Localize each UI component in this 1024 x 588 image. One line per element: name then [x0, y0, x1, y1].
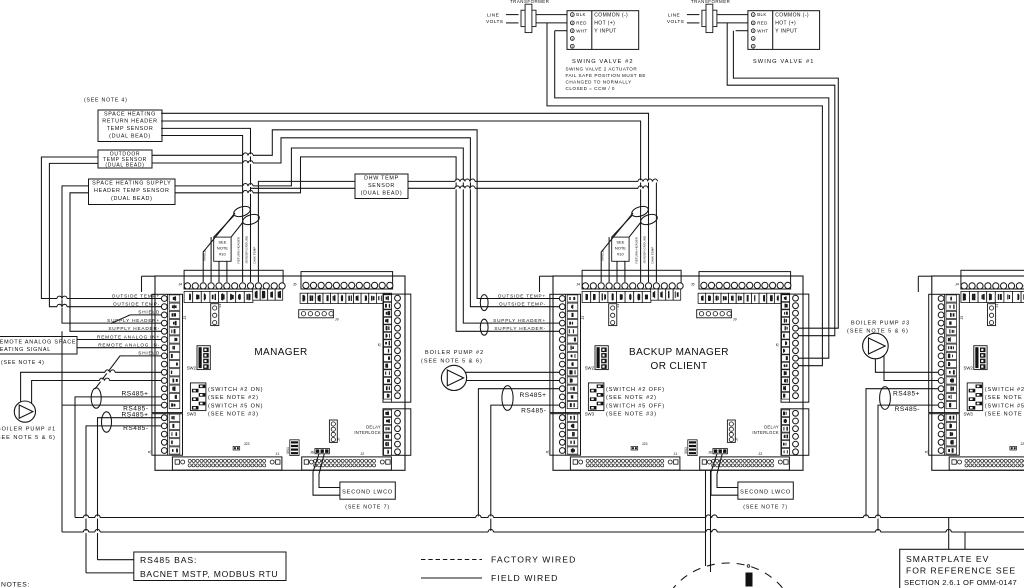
right terminal column (backup manager)	[776, 294, 809, 402]
svg-text:RS485+: RS485+	[121, 390, 148, 397]
connector Z1 (manager)	[211, 304, 222, 326]
bus1 hop at x=478.4	[476, 515, 481, 519]
cable ellipse backup supply pair	[480, 319, 488, 335]
svg-text:DELAY: DELAY	[366, 424, 381, 429]
DIP switch SW2 (manager)	[187, 346, 211, 371]
wire line volts to transformer (valve 2 circuit)	[506, 15, 519, 23]
label boiler pump #3	[847, 320, 910, 334]
svg-text:FAIL SAFE POSITION MUST BE: FAIL SAFE POSITION MUST BE	[566, 73, 646, 78]
connector J7 (backup manager)	[727, 420, 739, 442]
label J3 (third boiler board, clipped)	[960, 316, 964, 320]
connector J6 (backup manager)	[708, 449, 727, 455]
wire boiler pump #2 b	[466, 380, 560, 382]
cable ellipse markers at J4 (manager)	[232, 204, 260, 226]
label boiler pump #1	[0, 427, 56, 442]
see note #10 box (manager)	[214, 237, 231, 261]
label J3 (backup manager)	[581, 316, 585, 320]
wire remote analog in+	[77, 339, 162, 341]
wire board top-left stub (third boiler board, clipped)	[918, 276, 932, 292]
svg-text:(SEE NOTE #2): (SEE NOTE #2)	[606, 395, 657, 401]
remote analog signal box	[0, 337, 77, 355]
connector J6 (manager)	[310, 449, 329, 455]
svg-text:BACKUP MANAGER: BACKUP MANAGER	[629, 347, 729, 358]
board name (third boiler board, clipped)	[0, 0, 1, 1]
wires see-note box to J4 terminals (backup manager)	[609, 237, 625, 282]
left lower terminal group (third boiler board, clipped)	[924, 414, 959, 456]
wire supply header sensor to manager supply header+	[62, 186, 162, 323]
wire outdoor sensor to backup manager outside temp+	[152, 130, 560, 299]
svg-text:SENSOR GROUND: SENSOR GROUND	[642, 235, 646, 263]
svg-text:OUTSIDE TEMP+: OUTSIDE TEMP+	[112, 293, 160, 298]
svg-text:SHIELD: SHIELD	[601, 249, 605, 261]
terminal block SWING VALVE #1 (valve 1 circuit)	[748, 11, 820, 50]
wire boiler pump #2 a	[466, 371, 560, 373]
sensor box: space heating return header temp sensor	[98, 110, 162, 142]
svg-text:TRANSFORMER: TRANSFORMER	[691, 0, 730, 4]
svg-text:OUTSIDE TEMP+: OUTSIDE TEMP+	[498, 293, 546, 298]
notes heading	[1, 582, 30, 588]
svg-text:CHANGED TO NORMALLY: CHANGED TO NORMALLY	[566, 79, 632, 84]
svg-text:TEMP SENSOR: TEMP SENSOR	[107, 126, 154, 132]
connector J4 terminal strip (third boiler board, clipped)	[955, 270, 1024, 302]
transformer (valve 2 circuit)	[510, 0, 549, 33]
switch setting notes (third boiler board, clipped)	[985, 387, 1024, 418]
cable ellipse board3 RS485	[880, 387, 891, 410]
wire manager RS485+ upper	[75, 397, 162, 518]
wire supply header sensor to backup manager supply header-	[175, 157, 560, 331]
wire DHW sensor to manager J4 dhw temp	[258, 181, 355, 282]
svg-text:J5: J5	[378, 343, 382, 347]
svg-text:SMARTPLATE EV: SMARTPLATE EV	[906, 554, 989, 564]
svg-text:SW3: SW3	[585, 412, 595, 417]
boiler pump #3 symbol	[863, 333, 889, 359]
wire manager RS485- upper	[62, 404, 162, 406]
svg-text:OUTSIDE TEMP-: OUTSIDE TEMP-	[113, 302, 160, 307]
wire boiler pump #3 a	[875, 359, 938, 373]
svg-text:(DUAL BEAD): (DUAL BEAD)	[361, 191, 403, 197]
svg-text:J2: J2	[360, 452, 364, 456]
second LWCO box (manager)	[313, 454, 395, 511]
svg-text:(SEE NOTE #2): (SEE NOTE #2)	[985, 395, 1024, 401]
svg-text:SW3: SW3	[187, 412, 197, 417]
svg-text:NOTES:: NOTES:	[1, 582, 30, 588]
label manager RS485- lower	[123, 425, 148, 432]
label manager RS485- upper	[123, 406, 148, 413]
bus1 hop at x=714.5	[712, 515, 717, 519]
svg-text:LINE: LINE	[487, 12, 499, 18]
wire supply header sensor to backup manager supply header+	[175, 148, 560, 323]
svg-text:FIELD WIRED: FIELD WIRED	[491, 573, 559, 583]
wire shield stub row3 (manager)	[111, 315, 162, 324]
svg-text:FOR REFERENCE SEE: FOR REFERENCE SEE	[906, 566, 1016, 576]
label board3 RS485+	[893, 390, 920, 397]
wire RS485 trunk left vertical B	[69, 193, 71, 331]
wire outdoor sensor to manager outside temp+	[41, 157, 161, 299]
svg-text:(SEE NOTE #3): (SEE NOTE #3)	[985, 412, 1024, 418]
svg-text:J5: J5	[691, 283, 695, 287]
bus2 hop at x=86	[83, 529, 88, 533]
bottom connector strip J1 (manager)	[172, 452, 282, 470]
svg-text:#10: #10	[617, 252, 624, 257]
svg-text:J1: J1	[546, 450, 550, 454]
smartplate reference box	[900, 549, 1024, 588]
wire return header sensor to manager J4 (2)	[161, 136, 243, 283]
svg-text:REMOTE ANALOG IN-: REMOTE ANALOG IN-	[98, 343, 160, 348]
svg-text:FACTORY WIRED: FACTORY WIRED	[491, 554, 576, 564]
bus2 hop at x=490.8	[488, 529, 493, 533]
wire board3 RS485-	[878, 405, 938, 532]
svg-text:SW2: SW2	[963, 365, 973, 370]
wire RS485 trunk left vertical A	[61, 331, 63, 532]
wire remote analog in-	[77, 347, 162, 349]
svg-text:BOILER PUMP #2: BOILER PUMP #2	[425, 350, 484, 356]
bus2 hop at x=878	[875, 529, 880, 533]
label manager RS485+ upper	[121, 390, 148, 397]
bus1 hop at x=878	[875, 515, 880, 519]
bus2 hop at x=708.5	[706, 529, 711, 533]
bus2 hop at x=948.7	[946, 529, 951, 533]
svg-text:J7: J7	[735, 437, 739, 441]
svg-text:(SEE NOTE #3): (SEE NOTE #3)	[208, 412, 259, 418]
note swing valve 2 actuator (valve 2 circuit)	[566, 66, 646, 91]
svg-text:(SEE NOTE 4): (SEE NOTE 4)	[1, 360, 45, 366]
bottom connector strip J1 (backup manager)	[570, 452, 680, 470]
svg-text:OUTSIDE TEMP-: OUTSIDE TEMP-	[499, 302, 546, 307]
svg-text:SHIELD: SHIELD	[203, 249, 207, 261]
svg-text:(SEE NOTE #2): (SEE NOTE #2)	[208, 395, 259, 401]
wire manager RS485- lower	[86, 426, 162, 573]
svg-text:(SWITCH #2 OFF): (SWITCH #2 OFF)	[606, 387, 665, 393]
svg-text:HOT (+): HOT (+)	[594, 21, 615, 27]
svg-text:(DUAL BEAD): (DUAL BEAD)	[111, 196, 153, 202]
connector J5 terminal strip (manager)	[293, 272, 393, 304]
bus1 hop at x=86	[83, 515, 88, 519]
wire smartplate tap from bus1	[948, 518, 950, 550]
delay interlock terminal group (manager)	[383, 409, 411, 456]
svg-text:(SWITCH #5 ON): (SWITCH #5 ON)	[985, 403, 1024, 409]
svg-text:WHT: WHT	[757, 28, 768, 33]
cable ellipse markers at J4 (backup manager)	[630, 204, 658, 226]
cable ellipse backup outside pair	[480, 295, 488, 311]
svg-text:J1: J1	[924, 450, 928, 454]
svg-text:Z1: Z1	[218, 304, 222, 308]
svg-text:J3: J3	[581, 316, 585, 320]
wire board3 RS485+	[866, 389, 938, 518]
svg-text:DELAY: DELAY	[764, 424, 779, 429]
svg-text:SW1: SW1	[684, 447, 688, 454]
connector J5 terminal strip (backup manager)	[691, 272, 791, 304]
legend factory wired	[421, 554, 576, 564]
svg-text:RS485-: RS485-	[895, 406, 920, 413]
bottom connector strip J2 (backup manager)	[700, 452, 790, 470]
svg-text:DHW TEMP: DHW TEMP	[252, 247, 256, 264]
svg-text:J7: J7	[337, 437, 341, 441]
smartplate dashed ellipse	[660, 563, 796, 588]
boiler pump #1 symbol	[14, 401, 35, 422]
cable ellipse manager RS485 upper	[91, 388, 101, 408]
svg-text:(SWITCH #2 ON): (SWITCH #2 ON)	[208, 387, 263, 393]
connector Z1 (third boiler board, clipped)	[988, 304, 999, 326]
svg-text:J1: J1	[674, 452, 678, 456]
wire DHW sensor to manager J4 sensor ground	[251, 187, 356, 189]
svg-text:SW2: SW2	[585, 365, 595, 370]
svg-text:(SEE NOTE #3): (SEE NOTE #3)	[606, 412, 657, 418]
delay interlock terminal group (backup manager)	[781, 409, 809, 456]
wire line volts to transformer (valve 1 circuit)	[687, 15, 700, 23]
svg-text:RED: RED	[576, 21, 586, 26]
shield wire to J4 (backup manager)	[601, 213, 633, 282]
svg-text:SECTION 2.6.1 OF OMM-0147: SECTION 2.6.1 OF OMM-0147	[904, 578, 1017, 587]
label J3 (manager)	[183, 316, 187, 320]
svg-text:RETURN HEADER: RETURN HEADER	[237, 236, 241, 263]
wire BAS box upper	[98, 559, 134, 561]
bus1 hop at x=490.8	[488, 515, 493, 519]
backup manager input terminal labels	[493, 293, 546, 331]
svg-text:(DUAL BEAD): (DUAL BEAD)	[109, 134, 151, 140]
svg-text:SW3: SW3	[963, 412, 973, 417]
svg-text:RS485+: RS485+	[893, 390, 920, 397]
component J23 (third boiler board, clipped)	[1010, 442, 1024, 450]
label backup RS485-	[521, 408, 546, 415]
svg-text:J4: J4	[955, 282, 959, 286]
switch setting notes (manager)	[208, 387, 263, 418]
svg-text:(SWITCH #5 ON): (SWITCH #5 ON)	[208, 403, 263, 409]
connector J3 left terminal column (manager)	[152, 294, 183, 412]
DIP switch SW3 (manager)	[187, 383, 206, 417]
svg-text:INTERLOCK: INTERLOCK	[354, 430, 381, 435]
svg-text:SWING VALVE 2 ACTUATOR: SWING VALVE 2 ACTUATOR	[566, 66, 638, 71]
bus2 hop at x=97.5	[95, 529, 100, 533]
label SWING VALVE #2 (valve 2 circuit)	[572, 59, 634, 65]
controller board outline (third boiler board, clipped)	[932, 276, 1024, 470]
svg-text:NOTE: NOTE	[217, 246, 228, 251]
wire board top-left stub (backup manager)	[540, 276, 554, 292]
svg-text:J6: J6	[310, 451, 314, 455]
svg-text:J6: J6	[708, 451, 712, 455]
label board3 RS485-	[895, 406, 920, 413]
bottom connector strip J1 (third boiler board, clipped)	[949, 452, 1024, 470]
left lower terminal group (manager)	[148, 414, 183, 456]
cable break marks on outside temp feeds	[57, 296, 67, 308]
bottom connector strip J2 (manager)	[302, 452, 392, 470]
svg-text:OR CLIENT: OR CLIENT	[651, 361, 708, 372]
svg-text:SEE: SEE	[616, 240, 624, 245]
switch SW1 (manager)	[286, 440, 299, 456]
svg-text:SHIELD: SHIELD	[138, 351, 160, 356]
board name (manager)	[254, 347, 307, 358]
component J23 (manager)	[233, 442, 249, 450]
sensor box: space heating supply header temp sensor	[89, 179, 176, 205]
svg-text:J9: J9	[335, 318, 339, 322]
svg-text:SENSOR GROUND: SENSOR GROUND	[244, 235, 248, 263]
wire valve2 WHT run to backup manager	[555, 31, 829, 359]
svg-text:TRANSFORMER: TRANSFORMER	[510, 0, 549, 4]
DIP switch SW2 (third boiler board, clipped)	[963, 346, 987, 371]
shield wire to J4 (manager)	[203, 213, 235, 282]
connector J3 left terminal column (third boiler board, clipped)	[929, 294, 960, 412]
wire WHT stub (valve 2 circuit)	[555, 30, 567, 32]
svg-text:J23: J23	[244, 442, 250, 446]
wire WHT stub (valve 1 circuit)	[736, 30, 748, 32]
wire supply header sensor to manager supply header-	[70, 193, 162, 331]
diagonal shield wires into cable (manager)	[214, 216, 243, 238]
svg-text:BOILER PUMP #1: BOILER PUMP #1	[0, 427, 56, 433]
DIP switch SW3 (third boiler board, clipped)	[963, 383, 982, 417]
switch SW1 (backup manager)	[684, 440, 697, 456]
svg-text:J5: J5	[776, 343, 780, 347]
legend field wired	[421, 573, 559, 583]
svg-text:REMOTE ANALOG SPACE: REMOTE ANALOG SPACE	[0, 340, 76, 346]
wire board top-left stub (manager)	[142, 276, 156, 292]
svg-text:SECOND LWCO: SECOND LWCO	[342, 490, 393, 496]
bus1 hop at x=708.5	[706, 515, 711, 519]
wire valve2 RED run to backup manager	[547, 23, 822, 366]
RS485 BAS box	[134, 552, 286, 581]
wire return header sensor to backup manager J4 (1)	[161, 113, 648, 282]
svg-text:SWING VALVE #2: SWING VALVE #2	[572, 59, 634, 65]
svg-text:(SWITCH #5 OFF): (SWITCH #5 OFF)	[606, 403, 665, 409]
svg-text:NOTE: NOTE	[615, 246, 626, 251]
wire valve1 RED run to backup manager	[727, 23, 835, 336]
svg-text:J5: J5	[293, 283, 297, 287]
wire outdoor sensor to backup manager outside temp-	[152, 138, 560, 307]
connector J3 left terminal column (backup manager)	[550, 294, 581, 412]
switch setting notes (backup manager)	[606, 387, 665, 418]
wire outdoor sensor to manager outside temp-	[49, 163, 161, 306]
svg-text:DHW TEMP: DHW TEMP	[364, 175, 399, 181]
line volts source label (valve 1 circuit)	[667, 12, 684, 25]
svg-text:INTERLOCK: INTERLOCK	[752, 430, 779, 435]
wire DHW sensor to backup manager J4 sensor ground	[408, 187, 649, 189]
wire manager RS485+ lower	[98, 418, 162, 560]
svg-text:J1: J1	[148, 450, 152, 454]
svg-text:J3: J3	[183, 316, 187, 320]
wires see-note box to J4 terminals (manager)	[211, 237, 227, 282]
transformer (valve 1 circuit)	[691, 0, 730, 33]
svg-text:(SEE NOTE 5 & 6): (SEE NOTE 5 & 6)	[847, 328, 909, 334]
board name (backup manager)	[629, 347, 729, 372]
connector J9 (manager)	[299, 310, 339, 322]
wire return header sensor to manager J4 (1)	[161, 128, 250, 282]
connector Z1 (backup manager)	[609, 304, 620, 326]
svg-text:SUPPLY HEADER+: SUPPLY HEADER+	[493, 318, 546, 323]
wire boiler pump #3 b	[884, 355, 938, 380]
svg-text:J23: J23	[642, 442, 648, 446]
svg-text:RS485+: RS485+	[519, 392, 546, 399]
svg-text:#10: #10	[219, 252, 226, 257]
label delay interlock (manager)	[354, 424, 381, 435]
svg-text:J4: J4	[178, 282, 182, 286]
svg-text:BOILER PUMP #3: BOILER PUMP #3	[851, 320, 910, 326]
cable break marks on DHW run over inter-board bundle	[455, 179, 475, 189]
RS485 bus wire - (horizontal)	[62, 531, 1024, 533]
DIP switch SW2 (backup manager)	[585, 346, 609, 371]
svg-text:SUPPLY HEADER-: SUPPLY HEADER-	[108, 326, 160, 331]
label SWING VALVE #1 (valve 1 circuit)	[753, 59, 815, 65]
label manager RS485+ lower	[121, 411, 148, 418]
wires from backup manager to smartplate	[706, 470, 711, 572]
svg-text:(SEE NOTE 5 & 6): (SEE NOTE 5 & 6)	[421, 358, 483, 364]
svg-text:J23: J23	[1021, 442, 1024, 446]
svg-text:(SEE NOTE 7): (SEE NOTE 7)	[345, 505, 390, 511]
controller board outline (backup manager)	[553, 276, 803, 470]
svg-text:(DUAL BEAD): (DUAL BEAD)	[105, 163, 144, 169]
connector J4 terminal strip (backup manager)	[576, 270, 683, 302]
DIP switch SW3 (backup manager)	[585, 383, 604, 417]
second LWCO box (backup manager)	[711, 454, 793, 511]
RS485 bus wire + (horizontal)	[75, 517, 1024, 519]
svg-text:J9: J9	[733, 318, 737, 322]
svg-text:RETURN HEADER: RETURN HEADER	[102, 119, 158, 125]
svg-text:HEADER TEMP SENSOR: HEADER TEMP SENSOR	[94, 188, 170, 194]
see note #10 box (backup manager)	[612, 237, 629, 261]
svg-text:SEE: SEE	[218, 240, 226, 245]
connector J7 (manager)	[329, 420, 341, 442]
svg-text:(SEE NOTE 7): (SEE NOTE 7)	[743, 505, 788, 511]
wire boiler pump #1 a	[21, 372, 162, 402]
svg-text:Z1: Z1	[995, 304, 999, 308]
svg-text:SPACE HEATING: SPACE HEATING	[104, 111, 156, 117]
svg-text:HOT (+): HOT (+)	[775, 21, 796, 27]
cable ellipse backup RS485	[502, 386, 513, 411]
svg-text:SW2: SW2	[187, 365, 197, 370]
note (see note 4) upper	[84, 98, 128, 104]
svg-text:J2: J2	[758, 452, 762, 456]
cable break marks on DHW run at backup manager J4	[638, 179, 658, 189]
svg-text:BACNET MSTP, MODBUS RTU: BACNET MSTP, MODBUS RTU	[140, 569, 278, 579]
label backup RS485+	[519, 392, 546, 399]
wire transformer secondary (valve 1 circuit)	[717, 15, 748, 23]
rotated net labels at J4 (backup manager)	[601, 235, 655, 263]
diagonal shield wires into cable (backup manager)	[612, 216, 641, 238]
svg-text:RS485 BAS:: RS485 BAS:	[140, 555, 197, 565]
svg-text:RED: RED	[757, 21, 767, 26]
connector J9 (backup manager)	[697, 310, 737, 322]
wire DHW sensor to backup manager J4 dhw temp	[408, 181, 656, 282]
svg-text:(SWITCH #2 ON): (SWITCH #2 ON)	[985, 387, 1024, 393]
connector J4 terminal strip (manager)	[178, 270, 285, 302]
wire BAS box lower	[86, 572, 134, 574]
svg-text:BLK: BLK	[576, 12, 586, 17]
svg-text:Z1: Z1	[616, 304, 620, 308]
svg-text:SENSOR: SENSOR	[368, 183, 395, 189]
svg-text:SHIELD: SHIELD	[138, 310, 160, 315]
rotated net labels at J4 (manager)	[203, 235, 257, 263]
cable ellipse manager RS485 lower	[102, 412, 112, 432]
note (see note 4) lower	[1, 360, 45, 366]
svg-text:Y INPUT: Y INPUT	[775, 28, 797, 34]
wire smartplate tap from bus2	[964, 532, 966, 549]
svg-text:SW1: SW1	[286, 447, 290, 454]
right terminal column (manager)	[378, 294, 411, 402]
wire valve1 WHT run to backup manager	[733, 31, 838, 329]
svg-text:RETURN HEADER: RETURN HEADER	[635, 236, 639, 263]
svg-text:SWING VALVE #1: SWING VALVE #1	[753, 59, 815, 65]
svg-text:COMMON (-): COMMON (-)	[775, 12, 809, 18]
svg-text:REMOTE ANALOG IN+: REMOTE ANALOG IN+	[97, 334, 160, 339]
wire backup RS485-	[491, 405, 560, 532]
wire backup RS485+	[478, 389, 559, 518]
manager input terminal labels	[97, 293, 160, 355]
svg-text:VOLTS: VOLTS	[486, 19, 503, 25]
svg-text:J4: J4	[576, 282, 580, 286]
terminal block SWING VALVE #2 (valve 2 circuit)	[567, 11, 639, 50]
sensor box: DHW temp sensor	[355, 174, 408, 199]
bus1 hop at x=97.5	[95, 515, 100, 519]
label delay interlock (backup manager)	[752, 424, 779, 435]
svg-text:(SEE NOTE 4): (SEE NOTE 4)	[84, 98, 128, 104]
svg-text:COMMON (-): COMMON (-)	[594, 12, 628, 18]
